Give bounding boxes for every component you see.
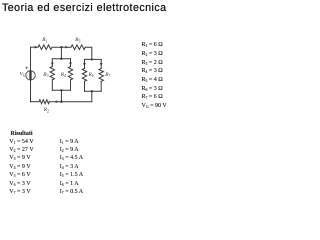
wire pair-2 left drop bbox=[84, 59, 86, 68]
wire top rail left segment bbox=[31, 46, 39, 48]
wire pair-2 bottom bar bbox=[85, 90, 102, 92]
resistor R4 bbox=[68, 67, 72, 80]
node pair-1 bottom centre dot bbox=[60, 89, 62, 91]
wire pair-1 right bottom bbox=[70, 80, 72, 91]
node pair-1 top centre dot bbox=[60, 58, 62, 60]
voltage source Vg thick bar bbox=[29, 71, 31, 80]
svg-text:R5: R5 bbox=[74, 37, 80, 43]
svg-text:R2: R2 bbox=[43, 107, 49, 113]
svg-text:R1: R1 bbox=[41, 37, 47, 43]
node pair-2 bottom centre dot bbox=[91, 90, 93, 92]
svg-text:R7: R7 bbox=[104, 72, 111, 78]
resistor R5 bbox=[71, 45, 85, 50]
current arrow on top rail before R1 bbox=[35, 46, 38, 49]
wire stub pair-2 bottom to bottom rail bbox=[91, 91, 93, 101]
resistor R6 bbox=[82, 68, 86, 81]
wire left edge bbox=[30, 47, 32, 101]
svg-text:R6: R6 bbox=[88, 72, 94, 78]
wire pair-1 left bottom bbox=[51, 80, 53, 91]
right panel: component values bbox=[142, 41, 167, 111]
resistor R1 bbox=[38, 45, 52, 50]
wire pair-1 top bar bbox=[52, 58, 70, 60]
current arrow into R6 (down) bbox=[83, 63, 86, 66]
wire stub node A down to pair-1 top bar bbox=[60, 47, 62, 59]
wire pair-1 left drop bbox=[51, 59, 53, 67]
wire pair-2 top bar bbox=[85, 58, 102, 60]
wire pair-1 bottom bar bbox=[52, 89, 70, 91]
wire stub pair-1 bottom to bottom rail bbox=[60, 90, 62, 101]
svg-text:VG: VG bbox=[20, 71, 26, 77]
node bottom rail dot bbox=[60, 101, 62, 103]
svg-text:R4: R4 bbox=[60, 72, 66, 78]
current arrow into R3 (down) bbox=[51, 63, 54, 66]
results I column bbox=[60, 138, 83, 197]
current arrow into R4 (down) bbox=[69, 63, 72, 66]
wire top rail mid segment bbox=[52, 46, 71, 48]
resistor R2 bbox=[39, 100, 49, 104]
wire pair-2 left bottom bbox=[84, 81, 86, 91]
wire pair-1 right drop bbox=[70, 59, 72, 67]
wire pair-2 right drop bbox=[100, 59, 102, 68]
current arrow on bottom rail (pointing left) bbox=[54, 100, 57, 103]
wire top rail right segment + corner down to pair-2 bbox=[85, 47, 92, 59]
current arrow into R7 (down) bbox=[100, 63, 103, 66]
node pair-2 top centre dot bbox=[91, 58, 93, 60]
voltage source Vg circle bbox=[26, 71, 35, 80]
wire bottom rail left segment bbox=[31, 101, 40, 103]
current arrow on top rail before R5 bbox=[65, 46, 68, 49]
resistor R7 bbox=[99, 68, 103, 81]
svg-text:R3: R3 bbox=[42, 72, 48, 78]
wire bottom rail right segment bbox=[49, 101, 92, 103]
circuit schematic bbox=[0, 0, 169, 198]
polarity plus sign bbox=[26, 67, 28, 69]
results V column bbox=[9, 138, 33, 197]
title bbox=[2, 2, 167, 14]
resistor R3 bbox=[50, 67, 54, 80]
wire pair-2 right bottom bbox=[100, 81, 102, 91]
results heading bbox=[11, 131, 33, 137]
node A dot on top rail bbox=[60, 46, 62, 48]
